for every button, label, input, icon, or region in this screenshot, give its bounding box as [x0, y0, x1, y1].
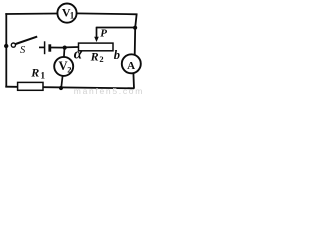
wire switch to battery	[39, 46, 45, 48]
svg-text:2: 2	[67, 64, 71, 74]
svg-text:P: P	[100, 28, 107, 40]
resistor R1 box	[18, 82, 43, 90]
switch S circle terminal	[11, 43, 15, 47]
wire left edge	[5, 13, 7, 87]
svg-text:α: α	[74, 46, 83, 62]
svg-text:manfen5.com: manfen5.com	[74, 86, 144, 96]
voltmeter V1 circle	[57, 4, 76, 23]
wire node to R2 terminal a	[65, 46, 79, 48]
wire battery to node	[51, 47, 65, 49]
svg-text:R: R	[90, 49, 99, 63]
node junction dot bottom	[59, 86, 63, 90]
node junction dot left	[4, 44, 8, 48]
battery short thick plate	[48, 44, 51, 51]
wire top-left to V1	[5, 13, 58, 16]
svg-text:R: R	[30, 65, 39, 79]
wire bottom	[5, 87, 134, 89]
node junction dot middle	[63, 46, 67, 50]
svg-text:1: 1	[70, 11, 75, 21]
wire wiper horizontal	[96, 27, 135, 29]
ammeter A circle	[122, 54, 141, 73]
battery long plate	[44, 41, 46, 54]
svg-text:S: S	[20, 45, 26, 56]
wire V2 top	[63, 48, 66, 58]
svg-text:1: 1	[40, 72, 45, 82]
svg-text:A: A	[127, 60, 135, 72]
slider arrow P onto R2	[96, 27, 98, 38]
switch blade	[16, 37, 38, 44]
voltmeter V2 circle	[54, 57, 73, 76]
rheostat R2 box	[79, 43, 114, 51]
node junction dot right	[133, 26, 137, 30]
svg-text:b: b	[114, 48, 120, 62]
wire A bottom to corner	[132, 73, 135, 89]
wire right edge top (corner to A)	[135, 14, 137, 56]
wire V2 bottom	[61, 76, 62, 88]
svg-text:2: 2	[99, 54, 103, 64]
wire V1 to top-right corner	[76, 12, 137, 15]
